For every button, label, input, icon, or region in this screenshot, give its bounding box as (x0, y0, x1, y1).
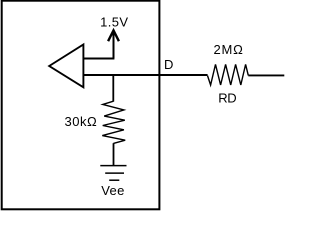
wire (RD to right edge) (248, 74, 284, 76)
svg-text:2MΩ: 2MΩ (214, 42, 244, 57)
enclosure box (2, 1, 160, 210)
wire (triangle upper pin to 1.5V arrow) (83, 58, 114, 60)
resistor 30kΩ (vertical zigzag) (102, 101, 125, 143)
svg-text:D: D (164, 57, 173, 72)
supply arrow 1.5V (108, 30, 119, 58)
svg-text:RD: RD (218, 90, 236, 105)
svg-text:30kΩ: 30kΩ (65, 114, 98, 129)
ground Vee (100, 166, 126, 181)
wire (vertical lead from output wire to 30k resistor) (112, 75, 114, 102)
svg-text:1.5V: 1.5V (100, 15, 128, 30)
svg-text:Vee: Vee (101, 183, 125, 198)
wire (triangle lower pin through node D to RD) (83, 74, 207, 76)
wire (30k resistor to ground) (113, 143, 115, 165)
resistor RD 2MΩ (horizontal zigzag) (208, 64, 249, 85)
op-amp U1 (left-pointing triangle) (49, 45, 83, 88)
